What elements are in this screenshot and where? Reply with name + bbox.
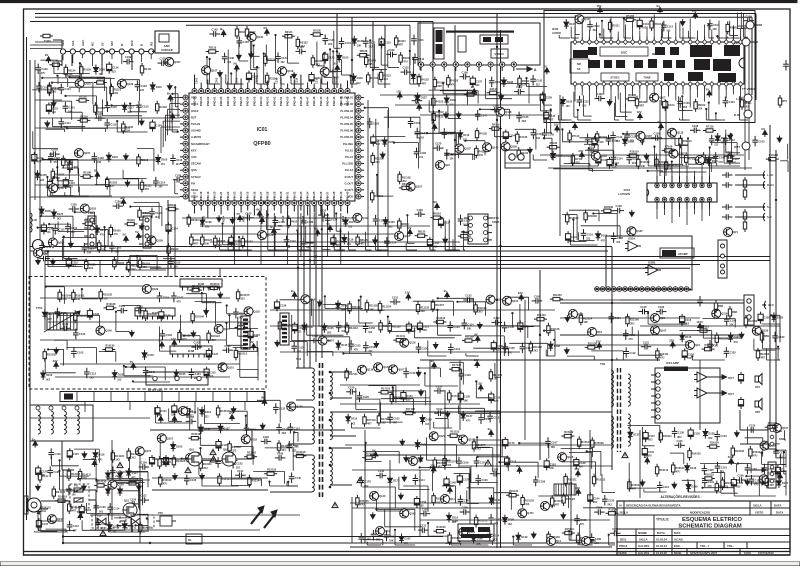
capacitor (electrolytic) R16104: [642, 446, 654, 458]
pin 39 of U02 (top): [638, 37, 642, 45]
resistor R10122: [207, 330, 221, 343]
wire segment in tuner area 8: [172, 121, 178, 132]
title block DES row: [617, 541, 790, 543]
svg-text:Q107: Q107: [58, 241, 65, 245]
svg-text:C120: C120: [422, 507, 429, 511]
svg-text:10K: 10K: [612, 166, 617, 169]
svg-text:C134: C134: [155, 211, 162, 215]
resistor R10124: [74, 310, 88, 323]
ground: [456, 111, 461, 118]
wire segment in top middle under box 18: [543, 137, 552, 160]
svg-text:D138: D138: [708, 432, 715, 436]
resistor R13108: [293, 450, 306, 458]
svg-text:C136: C136: [422, 346, 429, 350]
wire U03 bottom pin stub 5: [694, 209, 696, 214]
svg-text:C123: C123: [720, 434, 727, 438]
wire bottom 3: [420, 519, 610, 521]
wire segment in bottom middle 26: [583, 508, 615, 532]
svg-text:C164: C164: [492, 467, 499, 471]
wire segment in audio top 2: [601, 20, 613, 38]
wire segment in bottom right 10: [737, 462, 751, 473]
resistor R15102: [521, 495, 535, 508]
wire segment in dashed box interior 8: [159, 326, 176, 351]
svg-text:D116: D116: [46, 373, 53, 377]
pin 45 of U01 (top): [318, 89, 323, 94]
resistor R15133: [433, 457, 447, 470]
pin 76 of U01 (right): [356, 121, 361, 126]
internal block X01: [458, 36, 466, 52]
svg-text:C103: C103: [683, 101, 690, 105]
svg-text:C114: C114: [615, 316, 622, 320]
wire U02 top pin 30: [704, 25, 706, 37]
capacitor R1112: [104, 119, 117, 130]
svg-text:R13108: R13108: [296, 450, 306, 454]
capacitor (electrolytic) R2115: [63, 177, 75, 189]
wire segment in smps area 1: [229, 411, 247, 427]
capacitor (electrolytic) R16126: [688, 428, 700, 440]
resistor R11113: [345, 322, 358, 335]
wire segment in above QFP 22: [281, 75, 285, 84]
wire mid v3: [659, 100, 661, 176]
capacitor R15175: [610, 527, 621, 536]
resistor R13100: [216, 405, 230, 418]
svg-text:2K2: 2K2: [533, 349, 538, 352]
transistor Q16 big: [123, 499, 137, 518]
diode D127: [461, 411, 473, 423]
power arrow: [169, 110, 175, 120]
svg-text:12V: 12V: [692, 9, 697, 13]
capacitor (electrolytic) R15159: [414, 496, 426, 508]
wire segment in above QFP 23: [412, 57, 420, 84]
svg-text:4R7: 4R7: [640, 104, 645, 107]
wire segment in bottom left 21: [52, 456, 79, 465]
wire segment in bottom left 4: [128, 457, 148, 472]
svg-text:D105: D105: [327, 326, 334, 330]
resistor R13102: [228, 441, 242, 454]
pin 7 of U04: [651, 415, 660, 419]
svg-text:C115: C115: [494, 396, 501, 400]
resistor R9111: [85, 259, 97, 272]
ground: [140, 223, 145, 230]
capacitor R19120: [652, 132, 663, 141]
svg-text:9V: 9V: [45, 53, 49, 57]
svg-text:4R7: 4R7: [438, 85, 443, 88]
line filter winding 1: [36, 406, 40, 434]
wire segment in bottom right 7: [775, 449, 786, 468]
svg-text:D116: D116: [341, 343, 348, 347]
power arrow 5V 2: [327, 222, 333, 232]
wire tuner bottom rail: [62, 55, 132, 75]
svg-text:C109: C109: [436, 407, 443, 411]
svg-text:VD5: VD5: [348, 195, 354, 199]
capacitor R10147: [171, 292, 184, 304]
wire segment in if strip 6: [137, 149, 154, 172]
capacitor (electrolytic) R7104: [596, 154, 608, 166]
resistor R11155: [365, 300, 378, 313]
svg-text:R7108: R7108: [665, 144, 673, 148]
resistor R3124: [265, 72, 277, 85]
pin 48 of U02 (top): [573, 37, 577, 45]
wire segment in tuner area 16: [52, 101, 71, 120]
wire segment in above QFP 0: [256, 66, 268, 84]
diode D138: [703, 429, 715, 441]
capacitor (electrolytic) R11115: [417, 321, 429, 333]
capacitor R9134: [149, 208, 162, 220]
svg-text:C131: C131: [677, 439, 684, 443]
svg-text:21.04.05: 21.04.05: [656, 551, 667, 555]
svg-text:1K2: 1K2: [433, 246, 438, 249]
wire segment in dashed box interior 26: [228, 314, 258, 328]
wire segment in dashed box interior 25: [225, 322, 246, 346]
pin 75 of U01 (right): [356, 128, 361, 133]
svg-text:1K2: 1K2: [508, 523, 513, 526]
transistor Q02 (SMPS FET): [222, 448, 236, 467]
wire segment in area mid low 11: [381, 399, 414, 412]
wire segment in top middle under box 22: [464, 140, 485, 156]
resistor R5111: [608, 19, 620, 32]
resistor R bleed: [38, 470, 49, 483]
svg-text:TÍTULO:: TÍTULO:: [656, 517, 669, 522]
wire segment in if strip 10: [46, 187, 71, 196]
wire from U01 left pin 1: [172, 98, 180, 124]
wire segment in mid band 13: [358, 299, 373, 323]
svg-text:PLL12/B: PLL12/B: [342, 162, 353, 166]
wire segment in bottom middle 21: [427, 522, 449, 536]
wire segment in left mid 10: [74, 229, 108, 245]
resistor R9133: [127, 259, 139, 272]
speaker SP1: [755, 374, 762, 390]
wire segment in right of IF 14: [763, 332, 780, 349]
transistor Q118: [558, 453, 574, 462]
svg-text:R17108: R17108: [406, 407, 416, 411]
diode D116: [107, 152, 119, 162]
junction 23: [106, 50, 108, 52]
pin 73 of U01 (right): [356, 141, 361, 146]
svg-text:1K2: 1K2: [683, 144, 688, 147]
label of U01 bottom pin 22: [341, 215, 345, 222]
wire U02 bottom pin 20: [711, 90, 713, 96]
wire segment in smps area 14: [287, 481, 298, 486]
svg-text:R12113: R12113: [760, 352, 769, 356]
wire segment in top middle under box 1: [515, 129, 536, 149]
svg-text:104: 104: [155, 216, 160, 219]
svg-text:103: 103: [368, 331, 373, 334]
wire segment in mid band 25: [456, 301, 485, 316]
U02 internal white block tone: [636, 73, 658, 81]
capacitor R7109: [587, 144, 598, 153]
resistor R13111: [199, 458, 212, 471]
resistor R4135: [475, 128, 487, 141]
wire segment in bottom right 1: [747, 427, 780, 444]
svg-text:R8130: R8130: [418, 230, 426, 234]
svg-text:C120: C120: [71, 203, 78, 207]
pin 5 of sound stage: [617, 287, 622, 292]
warning triangle ac1: [185, 467, 191, 472]
svg-text:R16111: R16111: [663, 434, 672, 438]
wire segment in right of IF 4: [766, 348, 780, 360]
diode D105: [777, 478, 789, 488]
svg-text:R9135: R9135: [101, 244, 109, 248]
svg-text:4R7: 4R7: [367, 422, 372, 425]
capacitor R6109: [595, 92, 606, 101]
wire segment in audio below 9: [559, 115, 568, 120]
pin 17 of U01 (bottom): [192, 201, 197, 206]
sound output stage box: [606, 236, 692, 290]
svg-text:D105: D105: [421, 443, 428, 447]
svg-text:R21108: R21108: [402, 182, 411, 186]
capacitor R12103: [724, 315, 737, 327]
svg-text:R1130: R1130: [79, 94, 87, 98]
capacitor R15142: [376, 469, 387, 478]
pin 47 of U02 (top): [580, 37, 584, 45]
diode D138: [489, 495, 501, 505]
resistor R4133: [432, 95, 444, 108]
wire segment in right low corner 0: [745, 475, 759, 496]
stereo IC U03 body: [647, 183, 717, 202]
regulator IC U08: [170, 346, 212, 354]
wire smps gate 1: [152, 458, 215, 460]
wire segment in bottom right 13: [629, 463, 657, 489]
pin 3 of U03 (bottom): [670, 197, 674, 209]
ground: [167, 83, 172, 90]
wire U03 top pin stub 5: [694, 171, 696, 176]
svg-text:C156: C156: [369, 326, 376, 330]
resistor R16108: [765, 421, 778, 429]
wire segment in right band 2 10: [553, 169, 592, 172]
wire segment in bottom middle 15: [420, 445, 456, 464]
resistor R1133: [122, 121, 134, 134]
svg-text:C101: C101: [409, 371, 416, 375]
svg-text:Q107: Q107: [211, 68, 218, 72]
capacitor (electrolytic) R13137: [172, 403, 184, 415]
svg-text:C104: C104: [406, 394, 413, 398]
wire U01 bottom drop 6: [233, 213, 235, 265]
diode D138: [107, 522, 119, 534]
wire segment in bottom left 2: [82, 520, 124, 530]
svg-text:Q162: Q162: [409, 511, 416, 515]
ground: [443, 237, 448, 244]
wire segment in audio below 12: [683, 101, 690, 120]
transistor Q129: [501, 142, 517, 151]
ground: [249, 51, 254, 58]
capacitor R4123: [531, 129, 544, 141]
U02 internal dark block 2: [604, 60, 612, 68]
pin 53 of U01 (top): [265, 89, 270, 94]
svg-text:47U: 47U: [369, 63, 374, 66]
svg-text:D116: D116: [351, 417, 358, 421]
resistor R10141: [235, 322, 248, 330]
svg-text:R15163: R15163: [436, 525, 446, 529]
svg-text:C114: C114: [715, 138, 722, 142]
svg-text:R4135: R4135: [479, 132, 487, 136]
capacitor R15101: [474, 457, 487, 468]
U02 internal dark block 10: [713, 59, 731, 71]
wire segment in audio outer below 1: [674, 129, 688, 145]
resistor R11157: [431, 299, 444, 312]
svg-text:C159: C159: [497, 344, 504, 348]
svg-text:2K2: 2K2: [89, 267, 94, 270]
label of U01 bottom pin 13: [281, 215, 285, 222]
svg-text:R1102: R1102: [159, 105, 167, 109]
svg-text:PIN-29: PIN-29: [272, 191, 276, 200]
tuner pin 33V: [109, 41, 114, 54]
resistor R3122: [296, 36, 308, 49]
svg-text:R13130: R13130: [267, 468, 277, 472]
capacitor (electrolytic) R14104: [79, 504, 91, 516]
svg-text:47U: 47U: [660, 357, 665, 360]
capacitor (electrolytic) R8104: [427, 237, 439, 249]
wire bottom right: [350, 546, 612, 548]
capacitor R12123: [772, 332, 785, 343]
svg-text:222: 222: [297, 330, 302, 333]
svg-text:C142: C142: [378, 469, 385, 473]
wire segment in smps area 18: [265, 448, 294, 471]
pin 9 of sound stage: [640, 287, 645, 292]
junction 24: [263, 202, 265, 204]
wire segment in bottom left 19: [83, 460, 97, 483]
resistor R4108: [464, 89, 477, 97]
svg-text:R.OUT: R.OUT: [345, 175, 354, 179]
capacitor (electrolytic) R11126: [274, 299, 286, 311]
wire U02 top pin 32: [689, 19, 691, 37]
wire right band r2: [640, 325, 780, 327]
capacitor R17114: [478, 414, 491, 425]
transistor Q107: [157, 434, 173, 443]
U02 internal dark block 3: [616, 60, 625, 68]
svg-text:1K2: 1K2: [648, 439, 653, 442]
svg-text:Q107: Q107: [167, 436, 174, 440]
capacitor R9109: [113, 200, 124, 209]
wire segment in below QFP IF 8: [376, 235, 382, 250]
transistor Q151: [218, 363, 234, 372]
power arrow: [669, 338, 675, 348]
resistor R14108: [126, 477, 139, 485]
svg-text:104: 104: [404, 542, 409, 545]
svg-text:Q140: Q140: [105, 329, 112, 333]
svg-text:9V: 9V: [233, 62, 237, 66]
wire segment in bottom middle 36: [362, 487, 395, 508]
capacitor R6103: [677, 97, 690, 109]
diode D105: [337, 53, 349, 63]
svg-text:2K2: 2K2: [282, 432, 287, 435]
svg-text:D138: D138: [357, 39, 364, 43]
svg-text:C103: C103: [495, 80, 502, 84]
wire segment in smps area 13: [293, 431, 298, 442]
svg-text:R11157: R11157: [435, 303, 444, 307]
wire segment in area mid low 6: [424, 372, 458, 386]
pin 23 of U02 (bottom): [731, 82, 735, 90]
wire segment in below QFP IF 18: [228, 240, 239, 250]
wire segment in right band 2 7: [584, 144, 598, 159]
wire segment in left mid 2: [48, 223, 70, 242]
svg-text:D116: D116: [156, 85, 163, 89]
U02 internal dark block 8: [694, 59, 710, 70]
wire segment in left mid 17: [62, 238, 97, 249]
U02 internal dark block 17: [664, 73, 674, 81]
pin 51 of U01 (top): [279, 89, 284, 94]
wire lf to fuse: [62, 441, 74, 470]
transistor Q01 (SMPS FET): [188, 448, 202, 467]
svg-text:PLL13: PLL13: [345, 168, 354, 172]
wire bot v9: [444, 390, 446, 470]
transistor Q107: [74, 149, 90, 158]
resistor load L-CH: [743, 177, 746, 190]
pin 9 of U01 (left): [183, 148, 188, 153]
wire tuner pin stub 2: [82, 54, 84, 58]
svg-text:C126: C126: [464, 395, 471, 399]
svg-text:C137: C137: [444, 220, 451, 224]
capacitor R15158: [533, 476, 546, 487]
svg-text:4R7: 4R7: [632, 487, 637, 490]
capacitor R4131: [491, 103, 502, 112]
svg-text:R304: R304: [221, 215, 225, 222]
wire segment in left frame strip 1: [33, 131, 58, 149]
svg-text:PLAYB.04: PLAYB.04: [340, 115, 353, 119]
wire right mid 1: [560, 299, 744, 301]
svg-text:C159: C159: [420, 500, 427, 504]
svg-text:D105: D105: [342, 56, 349, 60]
ground: [416, 370, 421, 377]
ground: [728, 133, 733, 140]
wire segment in tuner area 12: [66, 112, 82, 132]
wire segment in bottom right 8: [711, 473, 724, 488]
svg-text:PROJ.: PROJ.: [619, 544, 628, 548]
svg-text:C136: C136: [420, 151, 427, 155]
pin 2 of U01 (left): [183, 102, 188, 107]
svg-text:Q118: Q118: [721, 312, 728, 316]
resistor R6108: [625, 93, 638, 101]
svg-text:R10144: R10144: [62, 293, 72, 297]
pin 5 of U01 (left): [183, 121, 188, 126]
wire segment in if strip 13: [70, 160, 96, 185]
wire U02 bottom pin 13: [660, 90, 662, 106]
transistor Q107: [214, 324, 230, 333]
resistor R10130: [102, 344, 115, 352]
svg-text:SP4257SA/SPV-2007: SP4257SA/SPV-2007: [690, 551, 718, 555]
svg-text:47U: 47U: [100, 234, 105, 237]
svg-text:C101: C101: [629, 333, 636, 337]
svg-text:R8100: R8100: [191, 218, 199, 222]
capacitor (electrolytic) R18104: [566, 231, 578, 243]
svg-text:C136: C136: [678, 431, 685, 435]
capacitor (electrolytic) R15126: [574, 457, 586, 469]
power arrow 16V 7: [597, 4, 603, 14]
svg-text:D127: D127: [633, 432, 640, 436]
svg-text:C109: C109: [726, 150, 733, 154]
svg-text:PAD-57: PAD-57: [239, 96, 243, 106]
wire segment in above QFP 24: [206, 56, 220, 84]
wire segment in qfp right gap 2: [393, 142, 419, 169]
wire segment in mid band 23: [436, 309, 461, 335]
svg-text:R21102: R21102: [402, 175, 411, 179]
wire ac 2: [96, 490, 126, 521]
capacitor R4134: [414, 128, 427, 140]
pin 31 of U01 (bottom): [285, 201, 290, 206]
wire segment in area mid low 5: [356, 388, 377, 410]
capacitor (electrolytic) R8126: [331, 235, 343, 247]
svg-text:C112: C112: [667, 24, 674, 28]
svg-text:C112: C112: [73, 524, 80, 528]
power arrow: [575, 486, 581, 496]
power arrow: [158, 339, 164, 349]
power arrow: [416, 101, 422, 111]
svg-text:R15174: R15174: [609, 507, 619, 511]
pin 3 of sound stage: [606, 287, 611, 292]
diode D105: [174, 369, 186, 379]
svg-text:Q118: Q118: [677, 131, 684, 135]
wire U02 top pin 35: [668, 32, 670, 37]
wire segment in audio top 16: [744, 13, 749, 37]
